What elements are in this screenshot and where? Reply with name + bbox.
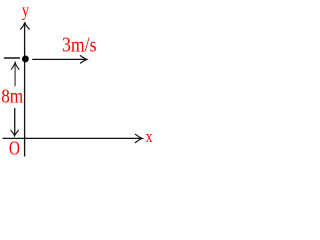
velocity arrowhead [80,56,87,64]
svg-text:y: y [22,0,29,20]
dimension up-arrowhead [11,63,19,70]
dimension down-arrowhead [11,130,19,136]
svg-text:x: x [146,127,153,146]
svg-text:3m/s: 3m/s [62,32,97,56]
dimension down-arrow stem [14,108,16,135]
svg-text:O: O [9,138,20,160]
dimension up-arrow stem [14,63,16,86]
x-axis line [3,137,142,139]
y-axis arrowhead [21,22,30,29]
x-axis arrowhead [135,134,142,142]
svg-text:8m: 8m [1,86,23,107]
particle dot [22,55,29,62]
y-axis line [24,23,26,157]
velocity arrow line [32,58,86,60]
dimension tick [4,57,20,59]
